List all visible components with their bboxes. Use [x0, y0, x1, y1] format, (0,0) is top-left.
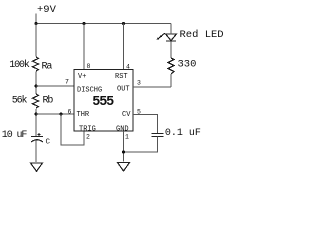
op-amp U1 555 timer box [74, 70, 133, 132]
capacitor C2 bottom plate [152, 136, 164, 138]
value label 56k [12, 95, 28, 107]
LED D1 triangle [166, 34, 177, 41]
label C [46, 139, 51, 147]
svg-text:TRIG: TRIG [79, 126, 96, 134]
pin number 7 [65, 79, 69, 86]
svg-text:Ra: Ra [42, 62, 53, 73]
wire pin 4 drop [123, 24, 125, 70]
svg-text:1: 1 [125, 134, 129, 141]
capacitor C bottom plate [31, 140, 43, 142]
svg-text:8: 8 [87, 63, 91, 70]
svg-text:DISCHG: DISCHG [77, 87, 102, 95]
wire Rb to C [35, 109, 37, 137]
svg-text:Red LED: Red LED [180, 29, 224, 41]
svg-text:V+: V+ [78, 73, 86, 81]
svg-text:10 uF: 10 uF [2, 130, 28, 141]
svg-text:RST: RST [115, 73, 128, 81]
svg-text:GND: GND [116, 126, 129, 134]
pin label CV [122, 111, 131, 119]
wire LED anode to rail [170, 24, 172, 35]
pin number 8 [87, 63, 91, 70]
junction at TRIG branch [59, 112, 62, 115]
wire pin 5 CV [133, 115, 158, 134]
svg-text:100k: 100k [9, 59, 30, 71]
value label 330 [178, 59, 197, 71]
wire pin 1 GND drop [123, 131, 125, 162]
pin number 1 [125, 134, 129, 141]
value label 0.1 uF [165, 128, 201, 139]
junction at +9V rail left [34, 22, 37, 25]
svg-text:330: 330 [178, 59, 197, 71]
wire TRIG branch to pin 2 [61, 114, 84, 145]
svg-text:7: 7 [65, 79, 69, 86]
wire pin 8 drop [83, 24, 85, 70]
wire C to ground [35, 141, 37, 163]
svg-text:+9V: +9V [37, 4, 57, 16]
pin label THR [77, 111, 90, 119]
wire pin 6 THR [36, 113, 74, 115]
pin label V+ [78, 73, 86, 81]
pin number 3 [137, 80, 141, 87]
LED light arrow 2 [157, 36, 162, 40]
wire C2 to ground rail [124, 137, 158, 153]
ground symbol left [31, 163, 43, 171]
capacitor C plus sign [38, 133, 41, 136]
svg-text:555: 555 [92, 95, 114, 110]
wire +9V stub [35, 14, 37, 24]
pin label OUT [117, 86, 130, 94]
pin number 2 [86, 134, 90, 141]
svg-text:56k: 56k [12, 95, 28, 107]
svg-text:OUT: OUT [117, 86, 130, 94]
wire pin 3 OUT [133, 86, 171, 88]
wire left rail to Ra [35, 24, 37, 57]
pin label RST [115, 73, 128, 81]
junction at pin6 tap [34, 112, 37, 115]
ground symbol right [118, 163, 130, 172]
junction at ground node [122, 150, 125, 153]
pin number 6 [68, 109, 72, 116]
svg-text:C: C [46, 139, 51, 147]
value label 100k [9, 59, 30, 71]
pin number 5 [137, 109, 141, 116]
label Ra [42, 62, 53, 73]
capacitor C top plate [31, 136, 43, 138]
svg-text:0.1 uF: 0.1 uF [165, 128, 201, 139]
junction at pin4 tap [122, 22, 125, 25]
junction at pin7 tap [34, 84, 37, 87]
svg-text:2: 2 [86, 134, 90, 141]
pin number 4 [126, 64, 130, 71]
svg-text:3: 3 [137, 80, 141, 87]
LED D1 cathode bar [166, 40, 176, 42]
label Red LED [180, 29, 224, 41]
node +9V label [37, 4, 57, 16]
wire top rail [36, 23, 171, 25]
resistor Ra [33, 57, 39, 71]
svg-text:THR: THR [77, 111, 90, 119]
svg-text:Rb: Rb [43, 95, 54, 107]
junction at pin8 tap [82, 22, 85, 25]
wire 330 to LED [170, 42, 172, 59]
pin label DISCHG [77, 87, 102, 95]
label Rb [43, 95, 54, 107]
pin label GND [116, 126, 129, 134]
LED light arrow 1 [159, 33, 164, 37]
wire pin 7 DISCHG [36, 85, 74, 87]
svg-text:CV: CV [122, 111, 131, 119]
resistor R330 [168, 58, 174, 74]
svg-text:4: 4 [126, 64, 130, 71]
resistor Rb [33, 94, 39, 108]
label 555 [92, 95, 114, 110]
wire OUT riser [170, 74, 172, 87]
svg-text:6: 6 [68, 109, 72, 116]
pin label TRIG [79, 126, 96, 134]
wire Ra to Rb [35, 72, 37, 95]
value label 10 uF [2, 130, 28, 141]
capacitor C2 top plate [152, 133, 164, 135]
